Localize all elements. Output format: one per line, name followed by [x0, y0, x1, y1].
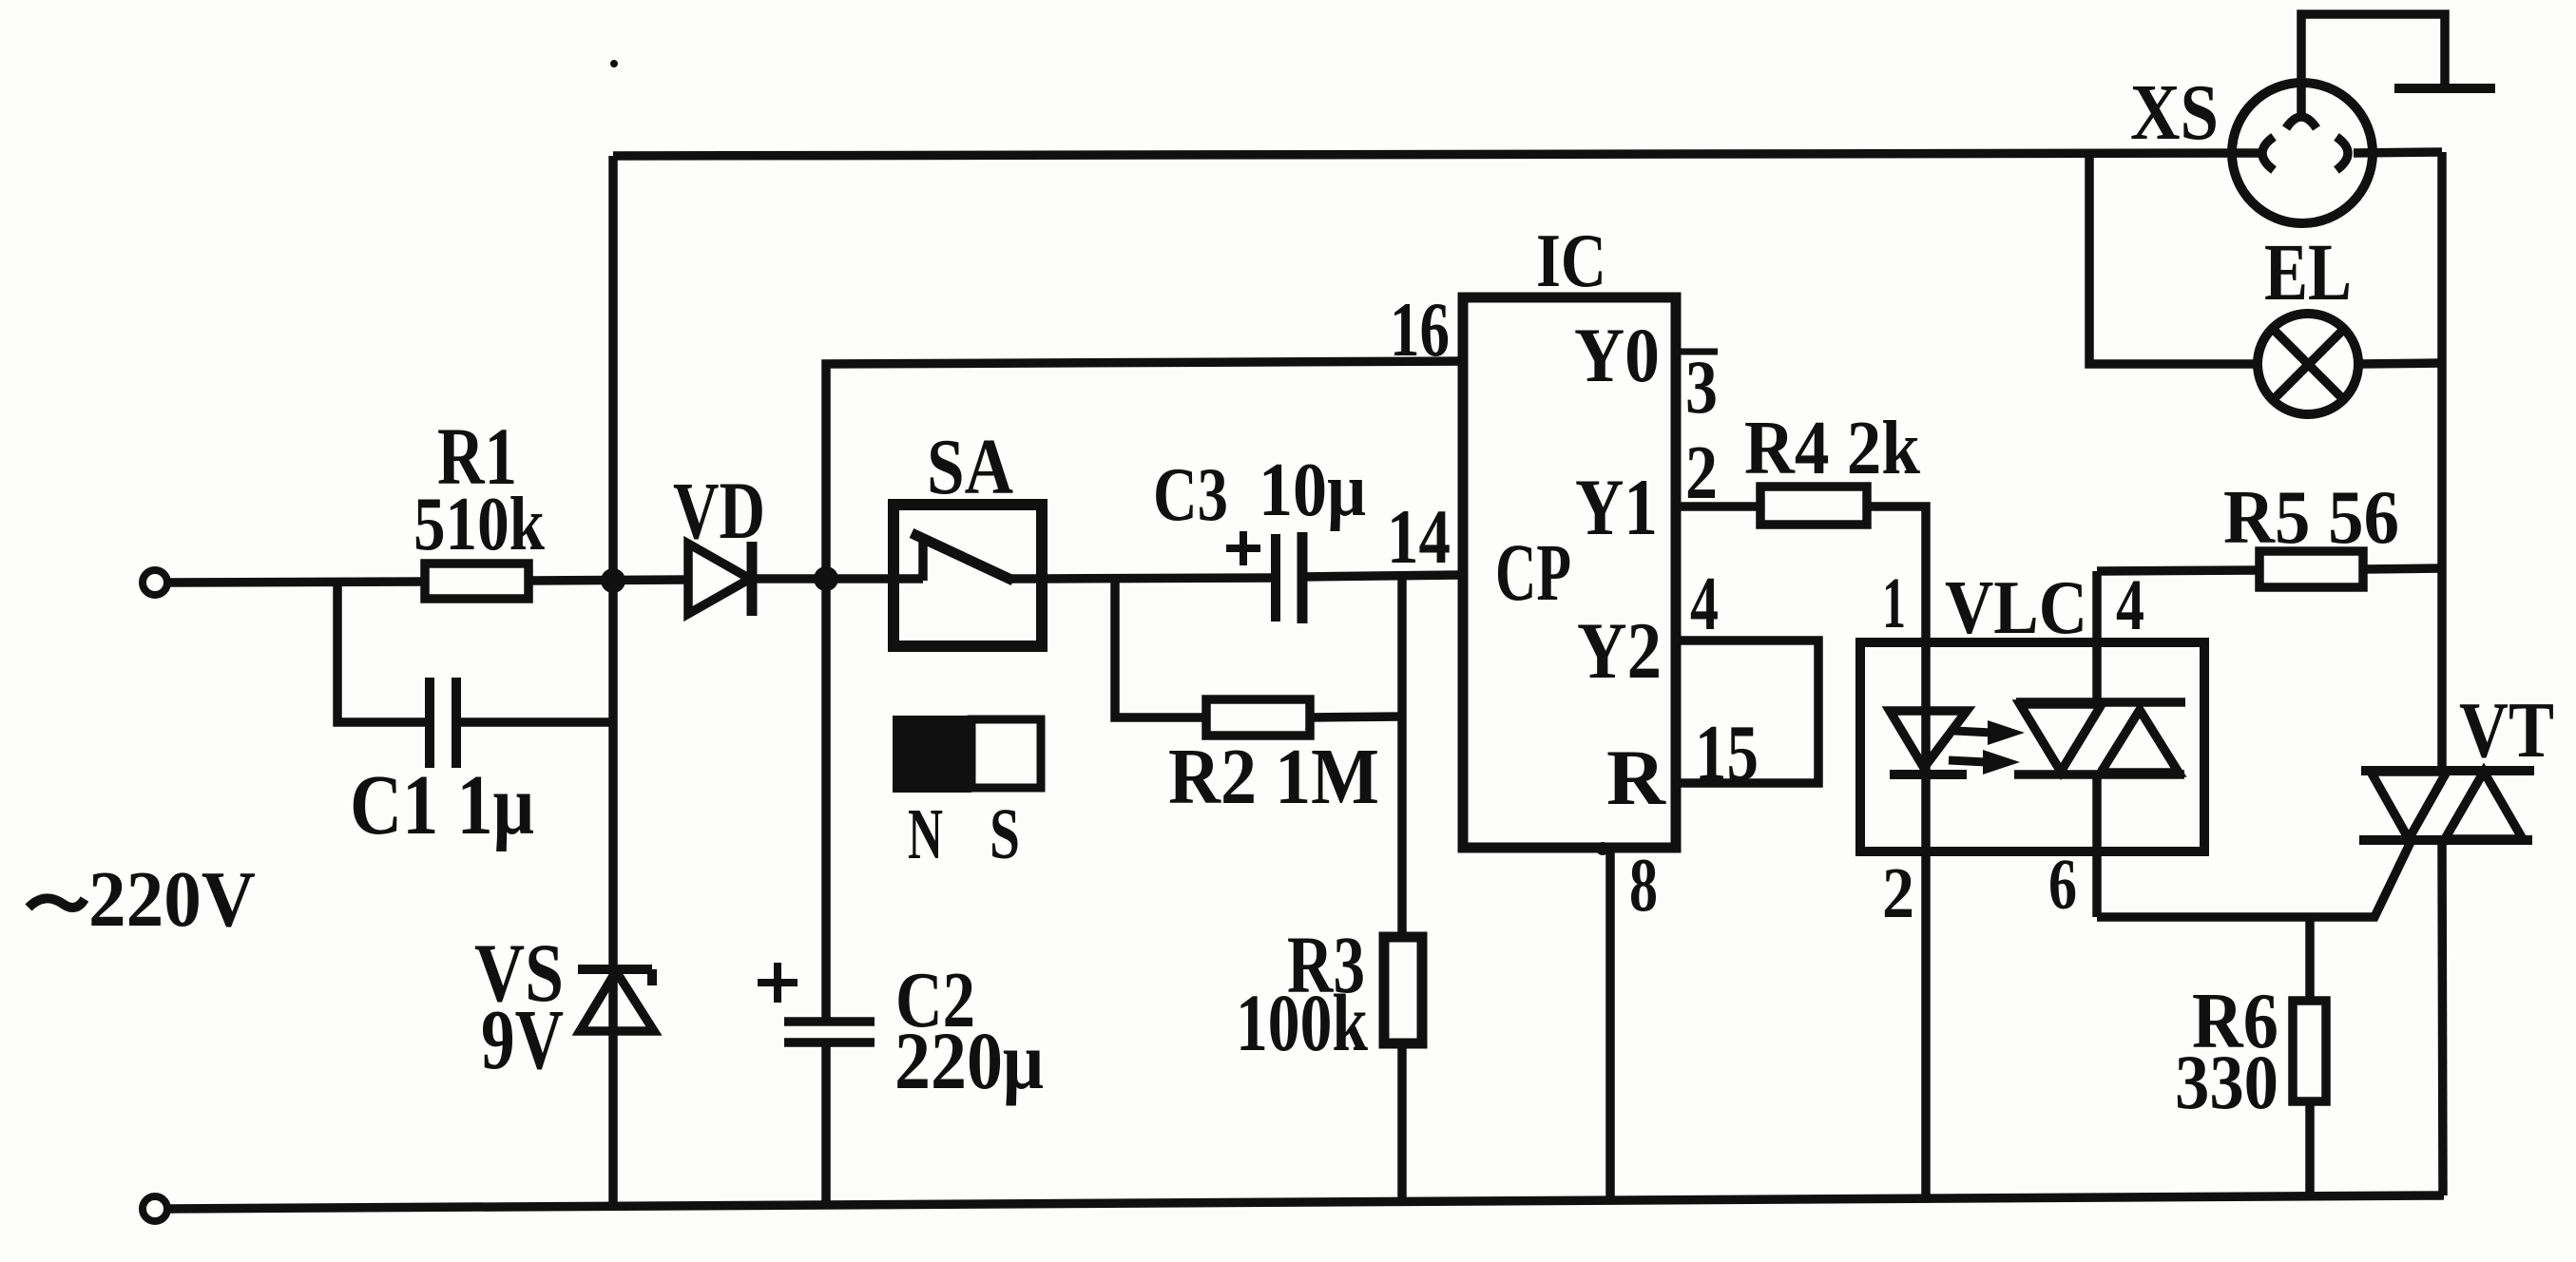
svg-text:9V: 9V: [481, 993, 564, 1087]
node dot pin8: [1596, 842, 1609, 855]
svg-text:14: 14: [1387, 493, 1451, 580]
node dot rail-C2 branch: [814, 566, 838, 591]
svg-text:VLC: VLC: [1945, 566, 2087, 650]
svg-text:XS: XS: [2130, 68, 2219, 157]
svg-text:220V: 220V: [88, 855, 256, 944]
resistor R1: [425, 564, 529, 599]
wire R6 to bottom: [2305, 1101, 2315, 1197]
wire top rail: [613, 153, 2259, 156]
svg-text:CP: CP: [1495, 526, 1571, 618]
svg-text:IC: IC: [1536, 220, 1606, 303]
svg-text:R4 2k: R4 2k: [1744, 407, 1920, 490]
svg-text:10μ: 10μ: [1259, 449, 1366, 532]
svg-text:3: 3: [1685, 346, 1718, 430]
wire R6 branch top: [2305, 917, 2315, 1001]
svg-text:Y0: Y0: [1574, 312, 1660, 398]
svg-text:VD: VD: [673, 465, 765, 556]
optocoupler VLC box: [1860, 642, 2204, 851]
wire XS right: [2354, 152, 2442, 153]
wire pin8: [1605, 848, 1615, 1200]
wire vertical R2/R3: [1397, 577, 1407, 1201]
capacitor C3: [1226, 531, 1302, 623]
wire XS earth pin: [2301, 14, 2445, 113]
wire EL branch: [2089, 155, 2259, 364]
terminal top-left: [143, 570, 167, 595]
svg-text:2: 2: [1882, 853, 1914, 933]
wire pin4 to R5: [2097, 570, 2259, 571]
wire R4 to VLC pin1: [1867, 507, 1926, 774]
resistor R5: [2259, 551, 2363, 587]
svg-text:EL: EL: [2264, 226, 2352, 317]
terminal bottom-left: [143, 1196, 167, 1221]
capacitor C2: [758, 963, 875, 1042]
capacitor C1: [337, 583, 613, 768]
wire left vertical: [608, 156, 618, 1206]
svg-text:C1 1μ: C1 1μ: [350, 758, 534, 852]
wire VLC pin6: [2092, 774, 2102, 917]
svg-text:N: N: [908, 794, 943, 874]
lamp EL: [2258, 314, 2358, 414]
triac VT: [2359, 771, 2534, 840]
wire pin4 to pin15 loop: [1676, 641, 1818, 783]
node dot rail-left vertical: [601, 568, 625, 593]
wire R2 to vertical: [1310, 717, 1402, 717]
svg-text:R: R: [1606, 734, 1666, 821]
tilde of 220V: [29, 898, 85, 908]
wire branch to R2: [1115, 579, 1206, 717]
wire gate: [2097, 840, 2412, 917]
wire branch to C2: [821, 579, 831, 1018]
svg-text:4: 4: [2116, 565, 2144, 645]
svg-text:VT: VT: [2459, 686, 2554, 774]
wire R5 to right vertical: [2363, 568, 2442, 569]
svg-text:16: 16: [1390, 286, 1450, 373]
svg-text:6: 6: [2048, 845, 2077, 925]
wire bottom rail: [168, 1195, 2444, 1209]
earth bar: [2394, 84, 2495, 93]
svg-text:R5 56: R5 56: [2223, 476, 2399, 560]
wire R1 to VD: [529, 580, 688, 581]
svg-text:2: 2: [1685, 431, 1718, 515]
wire VLC pin4: [2092, 571, 2102, 702]
svg-text:1: 1: [1882, 564, 1906, 643]
switch SA: [894, 505, 1042, 646]
svg-text:15: 15: [1695, 709, 1759, 797]
arrows of VLC: [1949, 720, 2025, 774]
resistor R4: [1760, 487, 1867, 525]
svg-text:330: 330: [2175, 1039, 2278, 1125]
LED of VLC: [1890, 711, 1967, 774]
wire rail left: [168, 582, 425, 583]
wire pin16: [826, 361, 1463, 579]
svg-text:4: 4: [1690, 563, 1719, 646]
wire VD to SA: [752, 574, 894, 583]
wire pin3 stub: [1676, 349, 1718, 355]
diode VD: [688, 542, 752, 616]
resistor R3: [1384, 937, 1422, 1043]
wire pin2 to R4: [1676, 502, 1760, 511]
svg-text:Y2: Y2: [1577, 606, 1662, 696]
resistor R2: [1206, 699, 1310, 736]
IC box: [1463, 297, 1676, 848]
svg-text:220μ: 220μ: [894, 1015, 1044, 1106]
wire EL to right vertical: [2358, 363, 2442, 364]
wire right vertical lower: [2442, 840, 2443, 1195]
wire VLC pin2: [1921, 774, 1931, 1199]
svg-text:8: 8: [1629, 844, 1658, 927]
phototriac of VLC: [2014, 702, 2185, 774]
svg-text:S: S: [990, 794, 1020, 874]
wire C2 to bottom: [821, 1042, 831, 1204]
svg-text:R2 1M: R2 1M: [1168, 733, 1379, 821]
svg-text:Y1: Y1: [1575, 463, 1658, 552]
svg-text:SA: SA: [927, 423, 1013, 511]
wire SA to C3: [1042, 578, 1276, 579]
svg-text:C3: C3: [1153, 453, 1228, 537]
svg-text:100k: 100k: [1236, 977, 1368, 1068]
socket XS: [2232, 83, 2373, 223]
zener VS: [578, 969, 654, 1031]
speck: [610, 60, 618, 67]
magnet N S: [893, 716, 1041, 793]
wire right vertical upper: [2437, 152, 2447, 771]
resistor R6: [2293, 1001, 2326, 1101]
wire C3 to IC pin14: [1302, 575, 1463, 577]
svg-text:510k: 510k: [413, 483, 545, 566]
